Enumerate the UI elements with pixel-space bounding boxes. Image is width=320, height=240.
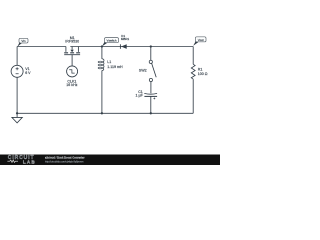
footer title text [45,156,85,160]
label M1 [65,36,79,44]
svg-text:altcloud / Buck Boost Converte: altcloud / Buck Boost Converter [45,156,85,160]
svg-text:16 kHz: 16 kHz [66,83,77,87]
label V1 value [25,67,31,75]
wire top rail left segment [17,46,66,48]
label D1 [121,34,130,41]
ground [12,113,22,123]
wire top rail right segment [70,46,193,48]
wire right vertical (Vout branch) [192,47,194,65]
svg-text:MBR1: MBR1 [121,37,130,41]
resistor R1 [191,64,195,79]
flag Vin [17,38,28,46]
svg-text:SW2: SW2 [139,69,147,73]
capacitor C1 [144,93,157,113]
svg-text:L1: L1 [107,60,111,64]
footer CircuitLab logo [7,155,36,165]
footer bar [0,155,220,166]
wire V1 to ground node [16,77,18,113]
svg-text:1 µF: 1 µF [136,94,144,98]
voltage source V1 [11,65,23,77]
label CLK1 [66,79,77,87]
switch SW2 [149,47,156,94]
inductor L1 [98,47,104,114]
label L1 [107,60,123,69]
node junction switch top [150,45,152,47]
diode D1 [120,44,126,49]
node junction Vswitch [101,45,103,47]
svg-text:1.119 mH: 1.119 mH [107,65,123,69]
svg-text:LAB: LAB [23,159,36,165]
label C1 [136,90,144,98]
svg-text:6 V: 6 V [25,71,31,75]
label SW2 [139,69,147,73]
label R1 [198,68,208,76]
node junction L1 bottom [101,112,103,114]
clock source CLK1 [67,66,78,77]
flag Vswitch [102,38,119,47]
flag Vout [193,37,206,46]
node junction at ground [16,112,18,114]
wire left vertical (Vin branch) [16,47,18,66]
transistor M1 (PMOS IRF9530) [64,47,80,66]
svg-text:IRF9530: IRF9530 [65,39,79,43]
footer url text [45,160,84,163]
svg-text:Vin: Vin [21,39,26,43]
wire R1 to bottom rail [192,79,194,113]
svg-text:Vswitch: Vswitch [107,39,117,43]
wire bottom rail [17,112,193,114]
svg-text:Vout: Vout [198,38,204,42]
node junction C1 bottom [150,112,152,114]
svg-text:100 Ω: 100 Ω [198,72,208,76]
svg-text:http://circuitlab.com/c/p4pbv7: http://circuitlab.com/c/p4pbv7p9jmmm [45,160,84,163]
